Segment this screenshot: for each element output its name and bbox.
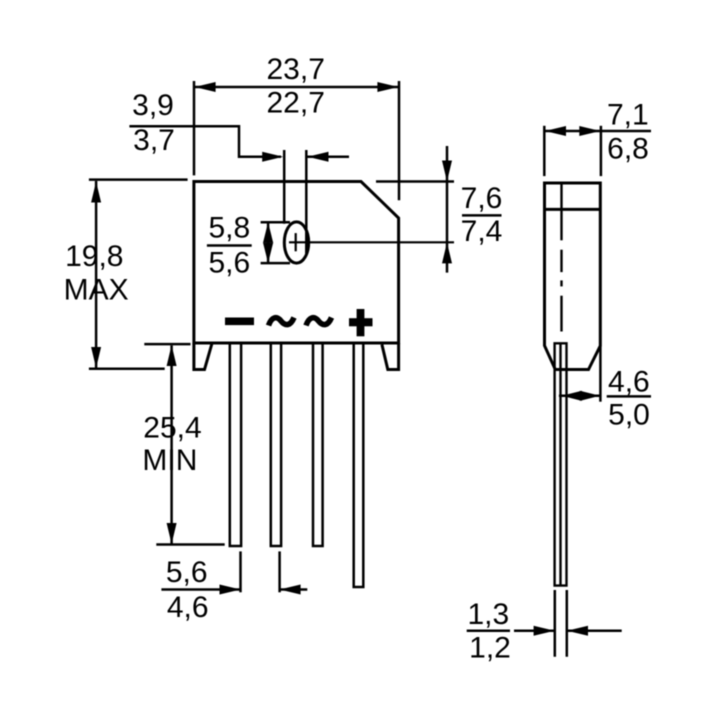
dimension 1,3/1,2 arrow right bbox=[534, 626, 555, 636]
svg-text:22,7: 22,7 bbox=[267, 87, 325, 120]
svg-text:5,6: 5,6 bbox=[166, 556, 208, 589]
dimension 7,6/7,4 dimension line bbox=[446, 146, 449, 273]
dimension 4,6/5,0 fraction bar bbox=[607, 395, 651, 398]
plus polarity mark bbox=[349, 309, 373, 336]
dimension 25,4 MIN dimension line bbox=[170, 346, 173, 544]
side view lead center line bbox=[559, 343, 561, 585]
lead 1 (minus) bbox=[230, 343, 241, 546]
dimension 1,3/1,2 right line bbox=[567, 629, 622, 632]
dimension 5,6/4,6 extension line below lead 1 bbox=[239, 551, 242, 592]
svg-text:4,6: 4,6 bbox=[167, 591, 209, 624]
front view body outline bbox=[194, 182, 399, 344]
lead 4 (plus) bbox=[354, 343, 364, 587]
svg-text:MIN: MIN bbox=[142, 444, 197, 477]
dimension 7,1/6,8 dimension line and fraction bar bbox=[545, 130, 652, 133]
dimension 23,7/22,7 extension line left bbox=[193, 81, 196, 175]
dimension 25,4 MIN bottom extension line bbox=[156, 543, 224, 546]
svg-text:1,2: 1,2 bbox=[469, 631, 511, 664]
dimension 5,8/5,6 dimension line bbox=[267, 222, 270, 263]
dimension 4,6/5,0 extension line bbox=[599, 346, 602, 402]
dimension 4,6/5,0 arrow left bbox=[562, 391, 582, 401]
dimension 5,6/4,6 left line with fraction bar bbox=[161, 588, 240, 591]
dimension 5,6/4,6 arrow right bbox=[220, 585, 241, 595]
dimension 3,9/3,7 fraction bar and leader bbox=[129, 126, 281, 156]
dimension 1,3/1,2 fraction bar bbox=[467, 629, 510, 632]
dimension 3,9/3,7 arrow to left hole line bbox=[262, 152, 283, 162]
dimension 19,8 MAX top extension line bbox=[89, 178, 188, 181]
right molded stub bbox=[382, 343, 399, 370]
dimension 7,1/6,8 extension line left bbox=[543, 126, 546, 176]
dimension 5,8/5,6 arrow down bbox=[263, 243, 273, 264]
svg-text:3,7: 3,7 bbox=[133, 124, 175, 157]
mounting hole bbox=[284, 222, 308, 263]
dimension 3,9/3,7 arrow to right hole line bbox=[308, 152, 329, 162]
dimension 25,4 MIN arrow up bbox=[167, 345, 177, 366]
dimension 5,8/5,6 bottom extension line bbox=[261, 262, 290, 265]
minus polarity mark bbox=[225, 318, 254, 326]
dimension 7,6/7,4 arrow up bbox=[442, 242, 452, 263]
dimension 25,4 MIN arrow down bbox=[167, 523, 177, 544]
svg-text:25,4: 25,4 bbox=[143, 411, 201, 444]
svg-text:4,6: 4,6 bbox=[608, 365, 650, 398]
dimension 5,6/4,6 extension line below lead 2 bbox=[278, 551, 281, 592]
dimension 7,6/7,4 arrow down bbox=[442, 161, 452, 182]
svg-text:23,7: 23,7 bbox=[267, 53, 325, 86]
side view center line dash 2 bbox=[560, 296, 562, 332]
svg-text:7,1: 7,1 bbox=[607, 98, 649, 131]
side view top band line bbox=[545, 208, 601, 211]
dimension 7,1/6,8 arrow left bbox=[545, 126, 566, 136]
svg-text:MAX: MAX bbox=[64, 274, 129, 307]
lead 3 (AC) bbox=[313, 343, 323, 546]
side view center line dot bbox=[560, 280, 562, 286]
dimension 23,7/22,7 extension line right bbox=[398, 81, 401, 200]
dimension 23,7/22,7 dimension line bbox=[195, 86, 399, 89]
side view center line solid segment bbox=[560, 183, 562, 240]
hole center cross horizontal bbox=[289, 241, 454, 243]
AC mark 2 bbox=[306, 318, 332, 326]
dimension 19,8 MAX arrow down bbox=[91, 347, 101, 368]
dimension 23,7/22,7 arrow right bbox=[377, 82, 398, 92]
svg-text:7,6: 7,6 bbox=[461, 182, 503, 215]
dimension 7,6/7,4 fraction bar bbox=[462, 214, 502, 217]
AC mark 1 bbox=[269, 318, 295, 326]
dimension 1,3/1,2 extension line right bbox=[566, 590, 569, 657]
dimension 4,6/5,0 arrow right bbox=[580, 391, 600, 401]
dimension 25,4 MIN top extension line bbox=[144, 343, 190, 346]
dimension 19,8 MAX dimension line bbox=[95, 181, 98, 368]
dimension 5,8/5,6 arrow up bbox=[263, 222, 273, 243]
dimension 1,3/1,2 left line bbox=[514, 629, 555, 632]
svg-text:5,6: 5,6 bbox=[208, 247, 250, 280]
dimension 5,8/5,6 top extension line bbox=[261, 221, 290, 224]
left molded stub bbox=[194, 343, 212, 370]
svg-text:7,4: 7,4 bbox=[461, 215, 503, 248]
hole center cross vertical bbox=[295, 233, 297, 251]
side view body outline bbox=[545, 183, 601, 370]
dimension 5,6/4,6 arrow left bbox=[280, 585, 301, 595]
dimension 7,1/6,8 arrow right bbox=[579, 126, 600, 136]
lead 2 (AC) bbox=[271, 343, 281, 546]
dimension 1,3/1,2 extension line left bbox=[554, 590, 557, 657]
dimension 19,8 MAX bottom extension line bbox=[89, 367, 165, 370]
dimension 4,6/5,0 dimension line bbox=[559, 395, 601, 398]
svg-text:5,0: 5,0 bbox=[608, 398, 650, 431]
side view center line dash 1 bbox=[560, 250, 562, 272]
side view lead outline bbox=[555, 343, 567, 585]
dimension 5,6/4,6 right line bbox=[280, 588, 308, 591]
dimension 5,8/5,6 fraction bar bbox=[207, 244, 252, 247]
svg-text:5,8: 5,8 bbox=[208, 212, 250, 245]
hole width extension line left bbox=[283, 150, 286, 224]
dimension 23,7/22,7 arrow left bbox=[195, 82, 216, 92]
dimension 7,6/7,4 top extension line bbox=[376, 180, 454, 183]
dimension 1,3/1,2 arrow left bbox=[567, 626, 588, 636]
svg-text:3,9: 3,9 bbox=[132, 89, 174, 122]
dimension 7,1/6,8 extension line right bbox=[600, 126, 603, 176]
svg-text:19,8: 19,8 bbox=[65, 240, 123, 273]
svg-text:6,8: 6,8 bbox=[607, 132, 649, 165]
hole width extension line right bbox=[305, 150, 308, 254]
dimension 19,8 MAX arrow up bbox=[91, 182, 101, 203]
dimension 3,9/3,7 right arrow line bbox=[308, 155, 350, 158]
svg-text:1,3: 1,3 bbox=[467, 598, 509, 631]
